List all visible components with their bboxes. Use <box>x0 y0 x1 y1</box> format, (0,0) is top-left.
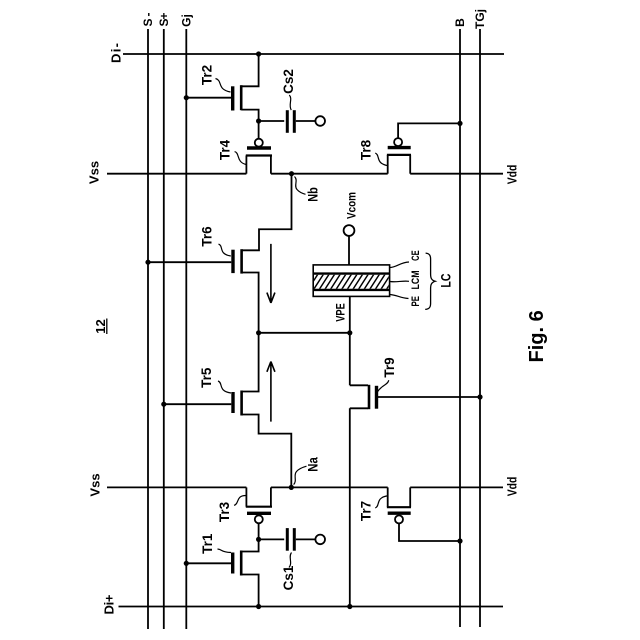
svg-text:Tr5: Tr5 <box>199 367 214 388</box>
transistor Tr7 gate bar <box>388 512 411 515</box>
transistor Tr5 gate lead <box>164 403 232 405</box>
svg-text:Cs2: Cs2 <box>281 69 296 94</box>
node Nb dot <box>289 171 294 176</box>
transistor Tr8 gate stem <box>398 123 460 138</box>
transistor Tr6 gate lead <box>148 261 231 263</box>
transistor Tr6 source lead <box>242 273 259 333</box>
svg-text:Tr9: Tr9 <box>382 357 397 377</box>
arrow down at Tr6 <box>267 244 275 303</box>
LC cell PE boundary line <box>313 289 389 291</box>
svg-text:CE: CE <box>410 250 422 261</box>
transistor Tr3 gate bubble <box>255 515 263 523</box>
transistor Tr3 right lead <box>270 487 272 506</box>
node dot Tr8 gate on B <box>457 121 462 126</box>
transistor Tr9 source lead <box>350 407 368 409</box>
leader squiggle Tr4 <box>235 152 246 165</box>
transistor Tr3 left lead <box>245 487 247 506</box>
capacitor Cs2 right lead <box>296 120 316 122</box>
wire Di- <box>123 53 504 55</box>
node dot Tr1 source on Di+ <box>256 604 261 609</box>
node dot center left <box>256 330 261 335</box>
svg-text:Cs1: Cs1 <box>281 565 296 590</box>
transistor Tr3 gate stem <box>258 523 260 539</box>
transistor Tr1 source lead <box>241 575 258 607</box>
transistor Tr5 drain lead <box>242 333 259 392</box>
capacitor Cs1 left lead <box>259 538 285 540</box>
svg-text:VPE: VPE <box>334 303 348 322</box>
rail S- <box>147 29 149 629</box>
transistor Tr9 drain lead <box>350 384 368 386</box>
svg-text:TGj: TGj <box>473 9 487 29</box>
transistor Tr2 gate lead <box>186 97 231 99</box>
node dot Tr1 drain / Cs1 / Tr3 gate <box>256 537 261 542</box>
transistor Tr7 right lead <box>409 487 411 507</box>
svg-text:Vdd: Vdd <box>505 165 520 185</box>
transistor Tr4 channel bar <box>246 154 272 156</box>
transistor Tr9 gate bar <box>375 386 378 409</box>
node dot center right on VPE column <box>347 330 352 335</box>
wire Vcom to LC <box>348 236 350 265</box>
transistor Tr3 channel bar <box>246 506 272 508</box>
LC cell CE boundary line <box>313 272 389 274</box>
leader squiggle Tr8 <box>375 153 387 166</box>
node dot VPE on Di+ <box>347 604 352 609</box>
node dot Tr6 gate on S- <box>145 260 150 265</box>
svg-text:Tr3: Tr3 <box>217 501 232 522</box>
leader squiggle Cs2 <box>289 95 291 110</box>
wire Di+ <box>119 606 504 608</box>
transistor Tr1 drain lead <box>241 539 258 551</box>
svg-text:Di+: Di+ <box>102 594 117 614</box>
brace for LC <box>425 253 435 309</box>
transistor Tr8 gate bar <box>388 146 411 149</box>
capacitor Cs1 plate 2 <box>293 528 296 551</box>
transistor Tr4 left lead <box>245 156 247 174</box>
leader curve CE <box>390 262 409 268</box>
svg-text:Vss: Vss <box>87 161 102 184</box>
transistor Tr7 gate stem <box>399 523 460 541</box>
transistor Tr6 gate bar <box>231 250 234 273</box>
arrow up at Tr5 <box>267 362 275 422</box>
leader squiggle Nb <box>295 177 306 195</box>
svg-text:Fig. 6: Fig. 6 <box>526 310 548 362</box>
capacitor Cs2 plate 1 <box>286 110 289 133</box>
svg-text:S+: S+ <box>157 13 171 27</box>
node Na dot <box>289 485 294 490</box>
svg-text:12: 12 <box>93 319 108 333</box>
svg-text:PE: PE <box>410 296 422 307</box>
svg-text:Na: Na <box>306 457 321 472</box>
wire Vss top <box>107 173 503 175</box>
transistor Tr5 channel bar <box>240 391 243 416</box>
transistor Tr6 channel bar <box>240 249 243 273</box>
capacitor Cs1 plate 1 <box>286 528 289 551</box>
svg-text:Nb: Nb <box>306 187 321 202</box>
svg-text:Tr7: Tr7 <box>359 501 374 521</box>
svg-text:Tr4: Tr4 <box>218 139 233 160</box>
transistor Tr4 gate stem <box>258 121 260 139</box>
rail B <box>459 29 461 627</box>
transistor Tr2 channel bar <box>240 85 243 110</box>
leader curve LCM <box>390 280 409 283</box>
transistor Tr9 channel bar <box>368 385 371 409</box>
transistor Tr8 right lead <box>409 155 411 174</box>
rail Gj <box>185 29 187 629</box>
svg-text:Tr2: Tr2 <box>200 65 215 85</box>
transistor Tr8 channel bar <box>387 154 411 156</box>
transistor Tr7 gate bubble <box>395 515 403 523</box>
leader squiggle Tr6 <box>219 244 231 256</box>
transistor Tr5 gate bar <box>231 392 234 413</box>
svg-text:B: B <box>453 18 467 27</box>
leader curve PE <box>390 295 409 299</box>
transistor Tr1 gate bar <box>231 553 234 574</box>
svg-text:Tr1: Tr1 <box>200 533 215 554</box>
capacitor Cs2 plate 2 <box>293 110 296 133</box>
terminal circle at Cs2 <box>315 116 325 126</box>
transistor Tr7 left lead <box>387 487 389 507</box>
terminal circle Vcom <box>344 225 355 236</box>
leader squiggle Na <box>294 466 307 484</box>
svg-text:Vdd: Vdd <box>505 477 520 497</box>
leader squiggle Tr3 <box>234 496 246 506</box>
capacitor Cs2 left lead <box>259 120 285 122</box>
transistor Tr4 gate bubble <box>255 139 263 147</box>
underline of label 12 <box>106 319 108 335</box>
node dot Tr9 gate on TGj <box>477 394 482 399</box>
wire Vss bottom <box>107 486 503 488</box>
transistor Tr1 channel bar <box>240 551 243 576</box>
wire center link <box>259 332 350 334</box>
wire VPE column upper <box>349 296 351 385</box>
leader squiggle Tr9 <box>378 380 389 391</box>
leader squiggle Cs1 <box>289 553 292 568</box>
svg-text:LC: LC <box>439 273 454 287</box>
transistor Tr4 gate bar <box>247 146 271 149</box>
transistor Tr2 drain lead <box>241 54 258 86</box>
svg-text:LCM: LCM <box>410 271 422 290</box>
transistor Tr2 gate bar <box>231 86 234 110</box>
svg-text:Tr6: Tr6 <box>200 226 215 247</box>
leader squiggle Tr5 <box>218 381 231 393</box>
rail S+ <box>163 29 165 629</box>
node dot Tr5 gate on S+ <box>161 402 166 407</box>
node dot Tr7 gate on B <box>457 538 462 543</box>
node dot Tr2 gate on Gj <box>184 95 189 100</box>
leader squiggle Tr1 <box>218 549 232 553</box>
capacitor Cs1 right lead <box>296 538 316 540</box>
wire VPE column lower <box>349 408 351 606</box>
transistor Tr8 gate bubble <box>394 138 402 146</box>
transistor Tr9 gate lead <box>378 396 480 398</box>
svg-text:Vss: Vss <box>88 473 103 496</box>
leader squiggle Tr2 <box>216 79 231 93</box>
node dot Tr1 gate on Gj <box>184 561 189 566</box>
leader squiggle Tr7 <box>375 496 387 508</box>
transistor Tr7 channel bar <box>387 506 411 508</box>
transistor Tr3 gate bar <box>247 512 271 515</box>
rail TGj <box>479 29 481 627</box>
svg-text:Vcom: Vcom <box>345 192 359 219</box>
transistor Tr5 source lead <box>242 415 292 488</box>
LC cell outline <box>313 265 389 297</box>
wire Tr6 drain to Nb <box>242 174 292 251</box>
svg-text:Gj: Gj <box>179 14 193 27</box>
svg-text:Tr8: Tr8 <box>359 139 374 160</box>
transistor Tr4 right lead <box>270 156 272 174</box>
transistor Tr2 source lead <box>241 110 258 121</box>
transistor Tr1 gate lead <box>186 562 231 564</box>
node dot Tr2 source / Cs2 / Tr4 gate <box>256 118 261 123</box>
terminal circle at Cs1 <box>315 535 325 545</box>
transistor Tr8 left lead <box>387 155 389 174</box>
svg-text:Di-: Di- <box>109 43 124 63</box>
node dot Tr2 drain on Di- <box>256 51 261 56</box>
svg-text:S-: S- <box>141 13 155 27</box>
